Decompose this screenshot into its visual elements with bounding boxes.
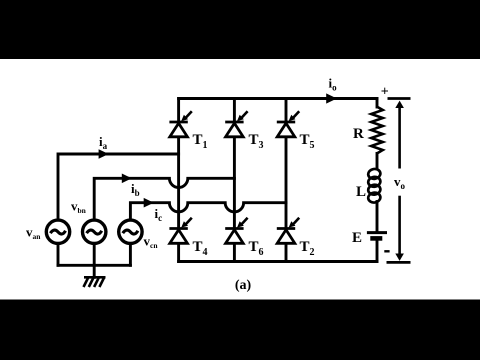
wire bottom bus	[179, 260, 377, 263]
arrow ib	[122, 174, 132, 184]
svg-text:+: +	[381, 85, 389, 100]
arrow io	[326, 93, 337, 103]
wire below battery to bottom bus	[376, 239, 379, 262]
wire T1 top	[177, 99, 180, 122]
wire vcn bottom	[129, 243, 132, 265]
wire ia line	[58, 154, 179, 221]
vo arrowhead down	[395, 254, 404, 261]
wire between R and L	[376, 153, 379, 169]
resistor R	[371, 107, 383, 154]
ground	[84, 277, 106, 287]
inductor L	[368, 168, 382, 203]
wire source common bus	[58, 264, 130, 267]
letterbox top bar	[0, 0, 480, 59]
wire top bus	[179, 97, 377, 100]
source vcn	[119, 220, 142, 243]
wire T4 bottom	[177, 243, 180, 261]
wire van bottom	[57, 243, 60, 265]
wire T5 top	[285, 99, 288, 122]
source vbn	[83, 220, 106, 243]
wire phase C riser (T5 to T2)	[285, 137, 288, 228]
svg-text:L: L	[356, 184, 366, 200]
wire phase B riser (T3 to T6)	[233, 137, 236, 228]
wire load branch top	[376, 99, 379, 108]
wire vbn bottom	[93, 243, 96, 265]
wire T2 bottom	[285, 243, 288, 261]
wire ib line with hop over phase A riser	[94, 178, 234, 221]
vo measurement bar	[388, 97, 411, 100]
battery E	[367, 233, 387, 239]
thyristor T6	[225, 218, 247, 244]
vo arrow line upper	[398, 104, 401, 258]
thyristor T4	[169, 218, 191, 244]
svg-text:R: R	[353, 126, 364, 142]
label minus	[384, 250, 389, 252]
wire T6 bottom	[233, 243, 236, 261]
thyristor T2	[277, 218, 299, 244]
thyristor T3	[225, 111, 247, 137]
source van	[46, 220, 69, 243]
wire ic line with hops over phase A and B risers	[130, 203, 286, 221]
thyristor T1	[169, 111, 191, 137]
letterbox bottom bar	[0, 300, 480, 360]
vo arrowhead up	[395, 101, 404, 108]
wire ground stem	[93, 265, 96, 277]
arrow ic	[144, 198, 154, 208]
thyristor T5	[277, 111, 299, 137]
wire phase A riser (T1 to T4)	[177, 137, 180, 228]
svg-text:(a): (a)	[235, 278, 252, 293]
wire between L and E	[376, 202, 379, 233]
wire T3 top	[233, 99, 236, 122]
svg-text:E: E	[352, 230, 362, 246]
arrow ia	[99, 149, 109, 159]
vo measurement bottom bar	[387, 261, 411, 264]
